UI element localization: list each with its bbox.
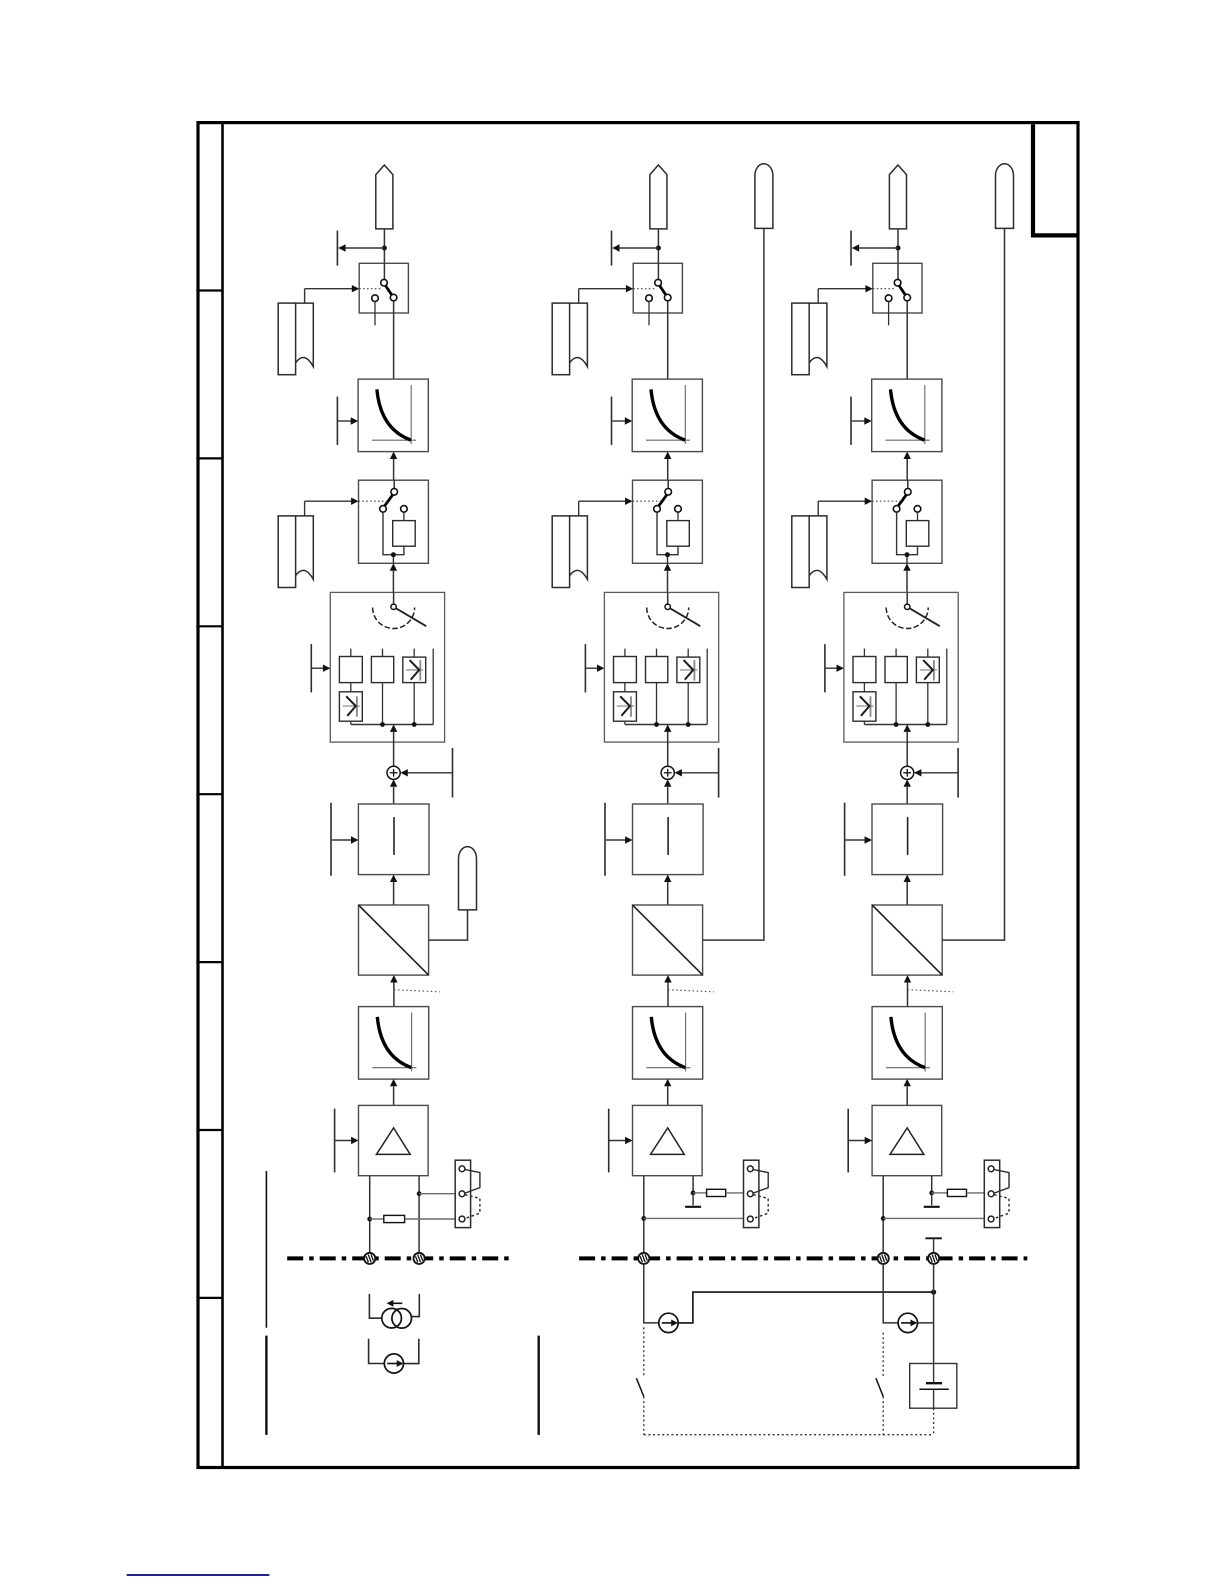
parameter input arrow S3.1 (818, 285, 873, 303)
wire into U2 bottom (664, 975, 672, 1007)
wire into U3 bottom (904, 975, 911, 1007)
measuring unit box M3 (844, 592, 958, 742)
switch S2.2 contacts and delay element (633, 480, 690, 563)
wire V3 right output (931, 1176, 933, 1193)
measuring element box M1a (339, 657, 362, 683)
limiter element box M3d (853, 692, 876, 721)
switch box S2.2 (with delay element) (633, 480, 703, 563)
amplifier box V1 (359, 1105, 429, 1175)
battery box GB1 (910, 1364, 957, 1409)
resistor R1 (shunt) (370, 1215, 456, 1222)
dotted test lead column 3 lower (882, 1397, 884, 1435)
node on V3 right wire (929, 1191, 934, 1196)
wire into A1 bottom (390, 875, 397, 905)
test point arrow (input) M2 (585, 644, 604, 692)
limiter element box M2c (677, 657, 700, 683)
parameter set symbol P3.1 (792, 303, 827, 375)
node on V1 left wire (367, 1217, 372, 1222)
current transformer T3b on busbar (928, 1253, 939, 1264)
test point arrow (input) A3 (845, 803, 872, 876)
wire into F1.2 bottom (390, 1079, 397, 1106)
wire V3 left output (882, 1176, 884, 1253)
amplifier box V3 (872, 1105, 942, 1175)
separator line middle (538, 1336, 540, 1435)
frame margin strip line (221, 123, 224, 1468)
annotation dotted line column 1 (394, 990, 440, 992)
amplifier box V2 (633, 1105, 703, 1175)
wire into SUM2 bottom (664, 779, 671, 804)
test switch S3t (876, 1378, 883, 1396)
wire K3 to switch S3.1 (897, 229, 899, 263)
wire S2.1 to inverse-time box (667, 301, 669, 379)
ground symbol column 2 (685, 1193, 701, 1207)
test point arrow (input) column 1 (337, 397, 358, 445)
resistor R3 (shunt) (932, 1189, 985, 1196)
measuring element box M3b (885, 657, 907, 683)
wire S3.1 to inverse-time box (906, 301, 908, 379)
parameter set symbol P2.1 (552, 303, 587, 375)
connector pill X3 (measured value output) (996, 164, 1014, 229)
parameter input arrow S1.2 (305, 498, 359, 516)
test point arrow (output) column 2 (612, 231, 659, 266)
test point arrow (input) column 2 (612, 397, 633, 445)
test point arrow (input) V2 (609, 1109, 633, 1173)
measuring element box M3a (853, 657, 876, 683)
wire V1 left output (369, 1176, 371, 1253)
wire into S1.2 bottom (390, 563, 397, 592)
terminal strip X1a with jumpers (455, 1160, 480, 1227)
wire G2 output loop to battery node (678, 1292, 933, 1323)
summation node SUM3 (901, 766, 914, 779)
wire into S3.2 bottom (903, 563, 910, 592)
limiter element box M1d (339, 692, 362, 721)
switch S3.2 contacts and delay element (872, 480, 929, 563)
parameter set symbol P2.2 (552, 516, 587, 588)
magnitude box A2 (633, 804, 704, 875)
test switch S2t (636, 1378, 643, 1396)
wire U3 output to X3 (942, 228, 1004, 940)
element row stub wires M3 (864, 649, 946, 725)
summation right input with test bar column 1 (400, 748, 452, 798)
test point arrow (input) M1 (311, 644, 330, 692)
test source bracket right (404, 1339, 419, 1364)
switch box S3.1 (blocking switch) (873, 263, 922, 313)
wire into F2.1 bottom (664, 452, 671, 481)
meter movement symbol in M1 (373, 592, 427, 628)
parameter set symbol P1.1 (278, 303, 313, 375)
annotation dotted line column 3 (908, 990, 954, 992)
open terminal bar above T3b (925, 1238, 941, 1253)
magnitude box A3 (872, 804, 943, 875)
wire into F2.2 bottom (664, 1079, 671, 1106)
footer rule (blue) (127, 1574, 270, 1576)
current transformer T3a on busbar (878, 1253, 889, 1264)
meter movement symbol in M3 (886, 592, 940, 628)
wire V1 right output (418, 1176, 420, 1253)
wire K1 to switch S1.1 (383, 229, 385, 263)
wire S1.1 to inverse-time box (393, 301, 395, 379)
parameter set symbol P3.2 (792, 516, 827, 588)
wire into SUM3 bottom (904, 779, 911, 804)
resistor R2 (shunt) (693, 1189, 743, 1196)
node T2a junction (656, 246, 661, 251)
wire V2 left output (643, 1176, 645, 1253)
current direction arrow over W1 (387, 1300, 403, 1307)
test current source G3 (898, 1313, 917, 1332)
switch S1.2 contacts and delay element (359, 480, 416, 563)
node on V3 left wire (881, 1216, 886, 1221)
wire into A3 bottom (904, 875, 911, 905)
connector arrow K1 (output to trip logic) (376, 165, 393, 229)
frame margin dividers (196, 291, 222, 1298)
element row stub wires M1 (351, 649, 433, 725)
connector arrow K2 (output to trip logic) (650, 165, 667, 229)
test point arrow (input) A2 (605, 803, 633, 876)
switch box S3.2 (with delay element) (872, 480, 942, 563)
test transformer W1 (two overlapping circles) (382, 1308, 412, 1328)
summation right input with test bar column 2 (675, 748, 719, 798)
wire into F3.2 bottom (904, 1079, 911, 1106)
measuring unit box M1 (330, 592, 444, 742)
busbar 2 (dash-dot line) (579, 1256, 1027, 1260)
test source bracket left (369, 1339, 385, 1364)
ground symbol column 3 (924, 1193, 940, 1207)
node on V2 left wire (641, 1216, 646, 1221)
inverse-time characteristic box F2.1 (632, 379, 702, 452)
inverse-time characteristic box F3.1 (872, 379, 942, 452)
inverse-time characteristic box F1.1 (358, 379, 428, 452)
wire T3a to source G3 (883, 1264, 898, 1323)
connector pill X2 (measured value output) (755, 164, 773, 229)
wire V2 right output (692, 1176, 694, 1193)
limiter element box M1c (403, 657, 426, 683)
switch S3.1 contacts (873, 263, 911, 325)
wire U2 output to X2 (703, 228, 764, 940)
title-block notch top right (1033, 124, 1077, 235)
parameter input arrow S3.2 (818, 498, 872, 516)
wire into F3.1 bottom (904, 452, 911, 481)
measurement transducer box U2 (diagonal) (633, 905, 703, 975)
test point arrow (input) M3 (825, 644, 844, 692)
wire to terminal strip middle contact (419, 1193, 455, 1195)
node battery branch (931, 1290, 936, 1295)
test transformer bracket left (369, 1294, 381, 1318)
dotted test lead battery lower (933, 1408, 935, 1435)
switch box S1.2 (with delay element) (359, 480, 429, 563)
internal wires and bus of M2 (625, 683, 707, 767)
parameter set symbol P1.2 (278, 516, 313, 588)
test current source G1 (384, 1354, 403, 1373)
measuring element box M2a (614, 657, 637, 683)
magnitude box A1 (358, 804, 429, 875)
wire into SUM1 bottom (390, 779, 397, 804)
node T3a junction (896, 246, 901, 251)
wire to terminal strip bottom contact column 3 (883, 1217, 984, 1219)
current transformer T1b on busbar (414, 1253, 425, 1264)
node on V2 right wire (691, 1191, 696, 1196)
meter movement symbol in M2 (647, 592, 701, 628)
limiter element box M2d (614, 692, 637, 721)
switch S1.1 contacts (359, 263, 397, 325)
test point arrow (output) column 1 (337, 231, 384, 266)
measurement transducer box U3 (diagonal) (872, 905, 942, 975)
dotted test lead column 3 (882, 1333, 884, 1376)
inverse-time characteristic box F3.2 (872, 1007, 942, 1080)
test point arrow (input) column 3 (851, 397, 872, 445)
dotted test lead column 2 (643, 1327, 645, 1376)
separator line left (265, 1171, 267, 1435)
measuring unit box M2 (604, 592, 718, 742)
battery branch wire (933, 1264, 935, 1364)
test current source G2 (659, 1313, 678, 1332)
node on V1 right wire (417, 1191, 422, 1196)
inverse-time characteristic box F2.2 (633, 1007, 703, 1080)
dotted test lead column 2 lower (643, 1397, 645, 1435)
internal wires and bus of M3 (864, 683, 946, 767)
node T1a junction (382, 246, 387, 251)
busbar 1 (dash-dot line) (287, 1256, 513, 1260)
test point arrow (input) V1 (335, 1109, 359, 1173)
switch box S1.1 (blocking switch) (359, 263, 408, 313)
wire into U1 bottom (390, 975, 397, 1007)
test point arrow (input) A1 (331, 803, 358, 876)
test point arrow (input) V3 (848, 1109, 872, 1173)
wire into S2.2 bottom (664, 563, 671, 592)
drawing frame border (198, 123, 1078, 1468)
terminal strip X3a with jumpers (984, 1160, 1009, 1227)
measuring element box M1b (371, 657, 393, 683)
current transformer T1a on busbar (364, 1253, 375, 1264)
measuring element box M2b (646, 657, 668, 683)
test point arrow (output) column 3 (851, 231, 898, 266)
summation node SUM2 (661, 766, 674, 779)
wire into F1.1 bottom (390, 452, 397, 481)
parameter input arrow S2.1 (579, 285, 634, 303)
annotation dotted line column 2 (668, 990, 714, 992)
terminal strip X2a with jumpers (744, 1160, 769, 1227)
wire G3 to battery branch (918, 1322, 934, 1324)
current transformer T2a on busbar (638, 1253, 649, 1264)
wire T2a to source G2 (644, 1264, 659, 1323)
test transformer bracket right (412, 1294, 420, 1317)
switch box S2.1 (blocking switch) (633, 263, 682, 313)
summation node SUM1 (387, 766, 400, 779)
element row stub wires M2 (625, 649, 707, 725)
measurement transducer box U1 (diagonal) (359, 905, 429, 975)
internal wires and bus of M1 (351, 683, 433, 767)
parameter input arrow S2.2 (579, 498, 633, 516)
switch S2.1 contacts (633, 263, 671, 325)
parameter input arrow S1.1 (305, 285, 360, 303)
summation right input with test bar column 3 (914, 748, 958, 798)
inverse-time characteristic box F1.2 (359, 1007, 429, 1080)
wire U1 output to X1 (429, 910, 468, 940)
connector arrow K3 (output to trip logic) (889, 165, 906, 229)
dotted test bus bottom (644, 1434, 934, 1436)
battery cell symbol (919, 1364, 948, 1409)
wire into A2 bottom (664, 875, 671, 905)
wire to terminal strip bottom contact column 2 (644, 1217, 744, 1219)
wire K2 to switch S2.1 (657, 229, 659, 263)
limiter element box M3c (916, 657, 939, 683)
